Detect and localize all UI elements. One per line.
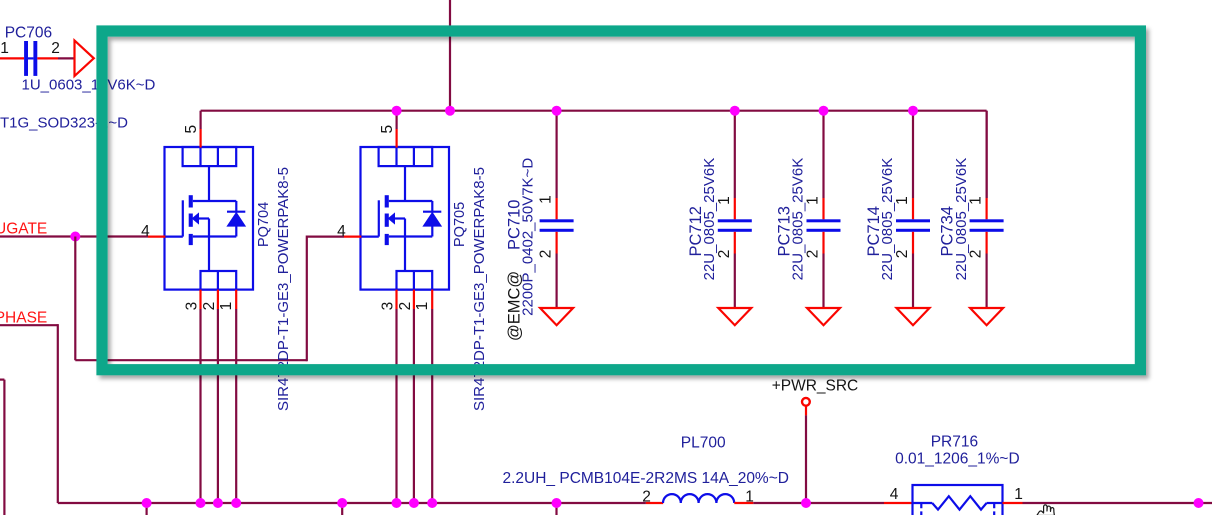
svg-text:1: 1 — [894, 196, 911, 205]
wire to off-page — [58, 57, 75, 59]
PQ705 diode cathode bar — [423, 211, 441, 213]
PC713 pin 2 stub — [822, 232, 824, 254]
PC706 left plate — [24, 41, 28, 76]
svg-text:1: 1 — [716, 196, 733, 205]
svg-text:PL700: PL700 — [681, 435, 726, 452]
wire bus to PC713 — [822, 111, 824, 198]
PC710 pin 1 stub — [555, 198, 557, 219]
PQ704 body outline — [165, 147, 254, 290]
PR716 pin 1 stub — [1003, 502, 1023, 504]
svg-text:22U_0805_25V6K: 22U_0805_25V6K — [790, 158, 807, 281]
junction PQ705 pin1 — [427, 498, 437, 508]
mouse hand cursor — [1037, 505, 1055, 515]
ground symbol under PC734 — [970, 308, 1003, 325]
wire stub below bus B — [341, 503, 343, 515]
PQ705 bottom block divider — [413, 271, 415, 290]
PQ704 pin 2 stub — [217, 290, 219, 309]
PL700 pin 1 stub — [734, 502, 753, 504]
wire to PQ705 pin 4 — [307, 236, 344, 238]
wire stub below bus C — [555, 503, 557, 515]
wire UGATE across — [75, 359, 306, 361]
PC714 pin 1 stub — [912, 198, 914, 219]
PR716 body outline — [913, 485, 1003, 515]
wire PC710 to ground — [555, 254, 557, 309]
svg-text:2: 2 — [538, 250, 555, 259]
PQ704 channel bar body — [189, 214, 193, 227]
wire PC734 to ground — [985, 254, 987, 309]
PQ705 diode anode lead — [431, 226, 433, 236]
svg-text:4: 4 — [337, 223, 346, 240]
PR716 dashed pin marks — [920, 504, 922, 515]
junction bus / PC713 — [819, 106, 829, 116]
svg-text:2: 2 — [397, 302, 414, 311]
PC714 top plate — [896, 219, 930, 222]
wire stub below bus A — [146, 503, 148, 515]
wire UGATE down — [74, 237, 76, 361]
PC734 top plate — [970, 219, 1004, 222]
PQ705 body diode triangle — [423, 213, 441, 227]
wire PHASE — [0, 324, 58, 326]
PQ705 pin 5 stub — [396, 129, 398, 148]
PQ705 pin 1 stub — [431, 290, 433, 309]
svg-text:PQ704: PQ704 — [256, 202, 272, 247]
PQ704 diode anode lead — [235, 226, 237, 236]
wire PC712 to ground — [734, 254, 736, 309]
svg-text:2: 2 — [968, 250, 985, 259]
PL700 winding arcs — [663, 494, 734, 503]
PQ704 pin 4 stub — [148, 236, 165, 238]
svg-text:2: 2 — [51, 40, 60, 57]
PQ705 channel bar body — [385, 214, 389, 227]
svg-text:1: 1 — [538, 195, 555, 204]
PQ704 diode cathode bar — [227, 211, 245, 213]
wire bus to PC710 — [555, 111, 557, 198]
ground symbol under PC714 — [897, 308, 930, 325]
PC714 pin 2 stub — [912, 232, 914, 254]
PQ705 top pin block — [379, 147, 433, 166]
PQ704 top pin block — [183, 147, 237, 166]
svg-text:2: 2 — [716, 250, 733, 259]
PQ704 body diode triangle — [227, 213, 245, 227]
wire stub left down — [3, 380, 5, 515]
wire bus to PC712 — [734, 111, 736, 198]
svg-text:22U_0805_25V6K: 22U_0805_25V6K — [701, 158, 718, 281]
PQ705 top block divider A — [395, 147, 397, 166]
junction bus right — [1194, 498, 1204, 508]
PC734 pin 2 stub — [985, 232, 987, 254]
PC713 pin 1 stub — [822, 198, 824, 219]
svg-text:1U_0603_16V6K~D: 1U_0603_16V6K~D — [22, 77, 156, 94]
PQ705 drain vertical — [404, 166, 406, 201]
PR716 left lead — [913, 502, 933, 504]
PQ704 pin 1 stub — [235, 290, 237, 309]
svg-text:1: 1 — [968, 196, 985, 205]
PC706 right plate — [33, 41, 37, 76]
wire PC713 to ground — [822, 254, 824, 309]
junction bus / PQ705 pin5 — [392, 106, 402, 116]
power node circle +PWR_SRC — [802, 398, 810, 406]
PC713 bottom plate — [807, 229, 841, 232]
top bus wire — [201, 110, 987, 112]
wire PQ704 pin 3 down — [199, 309, 201, 503]
PC734 pin 1 stub — [985, 198, 987, 219]
PC714 bottom plate — [896, 229, 930, 232]
svg-text:5: 5 — [183, 125, 200, 134]
svg-text:3: 3 — [184, 302, 201, 311]
wire PQ705 pin 1 down — [431, 309, 433, 503]
bottom bus wire right — [1023, 502, 1212, 504]
svg-text:+PWR_SRC: +PWR_SRC — [772, 378, 859, 395]
svg-text:1: 1 — [0, 40, 9, 57]
pin wire PC706.2 — [37, 57, 58, 59]
PQ704 source horizontal — [193, 235, 237, 237]
PQ704 drain horizontal — [193, 200, 237, 202]
junction bus / top feed — [445, 106, 455, 116]
PC712 top plate — [718, 219, 752, 222]
off-page connector arrow — [75, 41, 94, 77]
junction bus B — [337, 498, 347, 508]
pin wire PC706.1 — [0, 57, 24, 59]
junction bus A — [142, 498, 152, 508]
wire bus to PQ705 pin 5 — [396, 111, 398, 129]
PC710 pin 2 stub — [555, 232, 557, 254]
PC712 pin 2 stub — [734, 232, 736, 254]
svg-text:2: 2 — [894, 250, 911, 259]
svg-text:T1G_SOD323-2~D: T1G_SOD323-2~D — [0, 115, 128, 132]
PQ705 body arrow — [389, 214, 394, 223]
svg-text:22U_0805_25V6K: 22U_0805_25V6K — [953, 158, 970, 281]
junction bus C — [552, 498, 562, 508]
+PWR_SRC pin stub — [805, 406, 807, 416]
ground symbol under PC710 — [540, 308, 573, 325]
junction bus / PC714 — [908, 106, 918, 116]
PR716 zigzag — [932, 496, 986, 509]
wire PQ705 pin 3 down — [395, 309, 397, 503]
PQ704 gate link — [165, 236, 183, 238]
PQ704 channel bar source — [189, 234, 193, 245]
svg-text:PHASE: PHASE — [0, 309, 47, 326]
svg-text:22U_0805_25V6K: 22U_0805_25V6K — [879, 158, 896, 281]
PQ705 drain horizontal — [389, 200, 433, 202]
PQ704 source vertical — [208, 219, 210, 272]
svg-text:1: 1 — [414, 302, 431, 311]
svg-text:2: 2 — [805, 250, 822, 259]
PR716 right lead — [987, 502, 1003, 504]
svg-text:1: 1 — [218, 302, 235, 311]
svg-text:PR716: PR716 — [931, 433, 978, 450]
junction PQ704 pin2 — [213, 498, 223, 508]
svg-text:@EMC@: @EMC@ — [505, 271, 523, 341]
PQ704 body arrow — [193, 214, 198, 223]
wire bus to PQ704 pin 5 — [200, 111, 202, 129]
PQ704 top block divider B — [217, 147, 219, 166]
wire PC714 to ground — [912, 254, 914, 309]
PL700 pin 2 stub — [646, 502, 663, 504]
wire bus to PC714 — [912, 111, 914, 198]
PQ705 channel bar drain — [385, 195, 389, 207]
junction PQ705 pin2 — [409, 498, 419, 508]
ground symbol under PC713 — [807, 308, 840, 325]
PQ705 source vertical — [404, 219, 406, 272]
PC712 pin 1 stub — [734, 198, 736, 219]
bottom bus wire middle — [753, 502, 884, 504]
PQ704 diode cathode lead — [235, 201, 237, 213]
PQ704 body link — [197, 217, 209, 219]
ground symbol under PC712 — [718, 308, 751, 325]
PQ705 body outline — [361, 147, 450, 290]
highlight frame (teal annotation box) — [102, 31, 1140, 370]
PQ705 bottom pin block — [397, 271, 433, 290]
svg-text:3: 3 — [380, 302, 397, 311]
junction PQ704 pin3 — [196, 498, 206, 508]
PQ704 pin 5 stub — [200, 129, 202, 148]
PQ705 pin 2 stub — [413, 290, 415, 309]
svg-text:2.2UH_ PCMB104E-2R2MS 14A_20%~: 2.2UH_ PCMB104E-2R2MS 14A_20%~D — [503, 470, 789, 487]
PQ705 gate bar — [378, 200, 380, 236]
PQ704 bottom block divider — [217, 271, 219, 290]
svg-text:4: 4 — [141, 223, 150, 240]
PQ705 pin 3 stub — [395, 290, 397, 309]
wire PQ704 pin 2 down — [217, 309, 219, 503]
PQ704 bottom pin block — [201, 271, 237, 290]
svg-text:5: 5 — [379, 125, 396, 134]
wire PHASE down — [57, 324, 59, 503]
wire +PWR_SRC down to bus — [805, 415, 807, 503]
PQ704 gate bar — [182, 200, 184, 236]
PQ704 top block divider A — [199, 147, 201, 166]
PQ705 top block divider B — [413, 147, 415, 166]
svg-text:4: 4 — [890, 486, 899, 503]
PC710 bottom plate — [540, 229, 574, 232]
PQ705 pin 4 stub — [344, 236, 361, 238]
svg-text:1: 1 — [805, 196, 822, 205]
PQ705 source horizontal — [389, 235, 433, 237]
svg-text:2: 2 — [201, 302, 218, 311]
junction UGATE — [70, 232, 80, 242]
top bus right corner down to PC734 — [985, 111, 987, 198]
svg-text:0.01_1206_1%~D: 0.01_1206_1%~D — [895, 450, 1020, 467]
PC706 plate link — [28, 57, 33, 59]
PC734 bottom plate — [970, 229, 1004, 232]
svg-text:PQ705: PQ705 — [452, 202, 468, 247]
junction bus / +PWR_SRC — [801, 498, 811, 508]
svg-text:UGATE: UGATE — [0, 221, 47, 238]
PQ705 gate link — [361, 236, 379, 238]
PC712 bottom plate — [718, 229, 752, 232]
svg-text:1: 1 — [1014, 486, 1023, 503]
PQ704 drain vertical — [208, 166, 210, 201]
PQ705 diode cathode lead — [431, 201, 433, 213]
wire UGATE to PQ704 gate — [0, 235, 148, 237]
PC710 top plate — [540, 219, 574, 222]
junction PQ705 pin3 — [392, 498, 402, 508]
PC713 top plate — [807, 219, 841, 222]
wire bus to PC734 — [985, 111, 987, 198]
junction PQ704 pin1 — [231, 498, 241, 508]
PQ705 channel bar source — [385, 234, 389, 245]
wire from top edge — [449, 0, 451, 111]
PR716 pin 4 stub — [884, 502, 913, 504]
wire PQ705 pin 2 down — [413, 309, 415, 503]
junction bus / PC712 — [730, 106, 740, 116]
wire UGATE up to PQ705 gate — [306, 236, 308, 362]
PQ704 channel bar drain — [189, 195, 193, 207]
wire PQ704 pin 1 down — [235, 309, 237, 503]
PQ705 body link — [393, 217, 405, 219]
wire stub left — [0, 379, 4, 381]
svg-text:PC706: PC706 — [5, 24, 52, 41]
junction bus / PC710 — [552, 106, 562, 116]
PQ704 pin 3 stub — [199, 290, 201, 309]
bottom bus wire left — [58, 502, 646, 504]
